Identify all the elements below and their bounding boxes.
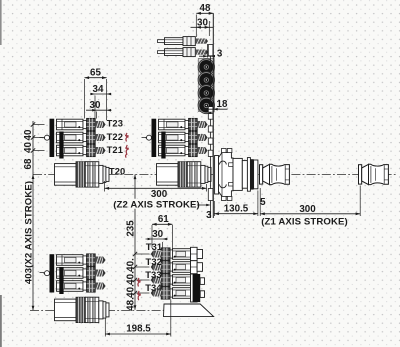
spindle nose step cylinders xyxy=(233,158,258,192)
centerline stub at T22 row xyxy=(40,137,45,139)
svg-text:18: 18 xyxy=(217,99,228,110)
tool labels T31-T34 xyxy=(146,241,162,252)
svg-text:198.5: 198.5 xyxy=(126,324,151,335)
gang turret upper-left position (T20-T23) xyxy=(44,118,110,187)
svg-text:130.5: 130.5 xyxy=(224,204,249,215)
svg-text:T22: T22 xyxy=(107,131,123,142)
centerline stub at lower knob row xyxy=(40,272,45,274)
spindle headstock cap plate xyxy=(215,156,219,195)
svg-text:T21: T21 xyxy=(107,144,123,155)
dimension 61 xyxy=(152,214,173,250)
svg-text:(Z2 AXIS STROKE): (Z2 AXIS STROKE) xyxy=(113,199,200,210)
svg-text:T23: T23 xyxy=(107,118,123,129)
station knob 3 xyxy=(198,85,214,101)
svg-text:34: 34 xyxy=(93,84,104,95)
dimension 48 top xyxy=(196,3,213,37)
turret face inner line xyxy=(210,50,212,218)
turret face reference line xyxy=(212,13,214,218)
svg-text:40.: 40. xyxy=(126,258,137,272)
back post dimension chain 235/40/40/40/48 xyxy=(126,175,150,311)
dimension 18 xyxy=(203,99,228,111)
gang turret lower-left position at X2 stroke end xyxy=(44,254,110,323)
parts chute xyxy=(164,304,214,317)
collet at Z1 stroke end position xyxy=(359,164,389,184)
left dimension line X2 chain xyxy=(23,121,45,310)
station knob 1 xyxy=(198,59,214,75)
red annotation near T21 xyxy=(125,145,129,158)
svg-text:5: 5 xyxy=(260,197,266,208)
svg-text:300: 300 xyxy=(151,189,168,200)
dimension 34 xyxy=(90,84,112,119)
centerline stub at center turret knob row xyxy=(142,137,147,139)
svg-text:403(X2 AXIS STROKE): 403(X2 AXIS STROKE) xyxy=(24,181,35,284)
svg-text:40: 40 xyxy=(23,142,34,153)
dimension 3 top xyxy=(199,49,223,60)
svg-text:40: 40 xyxy=(23,129,34,140)
scan edge artifact top-left xyxy=(0,0,2,45)
dimension 30 left turret xyxy=(86,100,112,118)
svg-text:300: 300 xyxy=(299,204,316,215)
svg-text:3: 3 xyxy=(217,49,223,60)
drill tip reference line xyxy=(207,44,209,58)
collet at spindle position xyxy=(260,164,290,184)
svg-text:T32: T32 xyxy=(146,256,162,267)
red annotation near T33 xyxy=(137,278,141,287)
svg-text:40.: 40. xyxy=(126,284,137,298)
turret disc strip behind station knobs xyxy=(198,59,214,112)
dimension 130.5 xyxy=(214,191,258,217)
tool labels T23 T22 T21 T20 xyxy=(107,118,123,129)
dimension 30 back post xyxy=(146,229,169,249)
dimension 198.5 xyxy=(105,300,171,337)
turret face clamp blocks column xyxy=(208,45,213,201)
svg-text:48: 48 xyxy=(200,3,211,14)
red annotation near T34 xyxy=(137,291,141,300)
dimension 3 at turret face xyxy=(197,204,212,222)
svg-text:T34: T34 xyxy=(145,282,162,293)
svg-text:48.: 48. xyxy=(126,297,137,311)
svg-text:30: 30 xyxy=(197,17,208,28)
spindle centerline Z1/Z2 axis xyxy=(33,173,398,175)
dimension 65 xyxy=(85,68,107,121)
dimension 30 top xyxy=(191,17,214,36)
svg-text:65: 65 xyxy=(90,68,101,79)
svg-text:T33: T33 xyxy=(145,269,161,280)
station knob 2 xyxy=(198,72,214,88)
svg-text:30: 30 xyxy=(90,100,101,111)
svg-text:61: 61 xyxy=(158,214,169,225)
dimension 300 Z1 axis stroke xyxy=(260,186,360,228)
dimension 5 xyxy=(260,188,266,216)
scan edge artifact bottom-left xyxy=(0,295,2,347)
live tool pair on turret top face xyxy=(158,37,209,46)
svg-text:T20: T20 xyxy=(109,165,125,176)
back tool post (T31-T34) xyxy=(151,247,205,302)
svg-text:T31: T31 xyxy=(146,241,162,252)
svg-text:30: 30 xyxy=(152,229,163,240)
svg-text:40.: 40. xyxy=(126,271,137,285)
lower tool centerline xyxy=(30,309,164,311)
svg-text:(Z1 AXIS STROKE): (Z1 AXIS STROKE) xyxy=(261,216,348,227)
gang turret upper-center position at Z2 stroke end xyxy=(146,118,212,187)
red annotation near T22 xyxy=(125,133,129,142)
svg-text:68: 68 xyxy=(23,158,34,169)
svg-text:3: 3 xyxy=(206,210,212,221)
svg-text:235: 235 xyxy=(126,220,137,237)
spindle flange body xyxy=(219,149,240,201)
dimension 300 Z2 axis stroke xyxy=(105,181,207,210)
station knob 4 xyxy=(198,97,214,113)
